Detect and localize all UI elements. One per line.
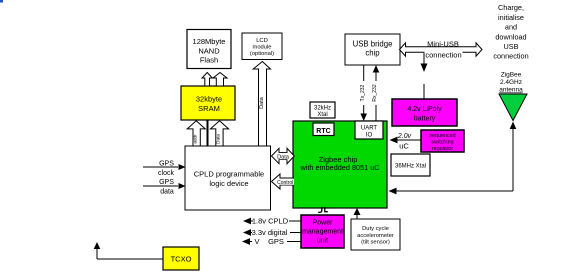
- GPS data input: [143, 179, 186, 196]
- wire accelerometer to Zigbee: [354, 208, 361, 219]
- svg-text:GPS: GPS: [159, 179, 174, 186]
- svg-text:ZigBee: ZigBee: [501, 72, 522, 79]
- svg-text:battery: battery: [414, 116, 436, 123]
- LiPoly battery: [392, 99, 457, 126]
- wire USB-UART Tx: [360, 65, 367, 121]
- svg-text:IO: IO: [366, 133, 373, 139]
- svg-text:CPLD programmable: CPLD programmable: [194, 170, 264, 179]
- svg-text:initialise: initialise: [498, 13, 524, 22]
- svg-text:Rx_232: Rx_232: [372, 84, 378, 101]
- svg-text:Xtal: Xtal: [317, 112, 327, 118]
- svg-text:data: data: [160, 189, 174, 196]
- bus arrow NAND-SRAM right: [213, 73, 227, 87]
- svg-text:regulator: regulator: [432, 146, 453, 152]
- 36MHz crystal: [391, 154, 430, 176]
- svg-text:chip: chip: [365, 49, 380, 58]
- svg-text:Power: Power: [313, 220, 334, 227]
- svg-text:2.0v: 2.0v: [397, 133, 412, 140]
- svg-text:Data: Data: [216, 134, 221, 144]
- svg-text:4.2v LiPoly: 4.2v LiPoly: [407, 106, 442, 113]
- svg-text:accelerometer: accelerometer: [357, 233, 394, 239]
- svg-text:128Mbyte: 128Mbyte: [193, 37, 226, 46]
- UART IO block: [355, 121, 383, 139]
- 32kHz crystal: [310, 102, 335, 118]
- TCXO oscillator: [163, 247, 199, 270]
- svg-text:connection: connection: [425, 51, 461, 60]
- USB bridge chip: [345, 34, 400, 65]
- svg-text:Control: Control: [277, 180, 293, 186]
- svg-text:Data: Data: [259, 96, 265, 109]
- PMU output V GPS: [242, 237, 301, 246]
- wire USB to battery: [421, 53, 428, 99]
- svg-text:Data: Data: [277, 154, 290, 160]
- PMU output 1.8v CPLD: [243, 217, 301, 226]
- svg-text:32kbyte: 32kbyte: [196, 95, 222, 104]
- svg-text:switching: switching: [431, 140, 453, 146]
- svg-text:connection: connection: [493, 52, 528, 61]
- PMU output 3.3v digital: [243, 228, 301, 237]
- corner mark: [0, 0, 3, 3]
- svg-text:sequenced: sequenced: [429, 133, 455, 139]
- svg-text:logic device: logic device: [209, 179, 248, 188]
- svg-text:Tx_232: Tx_232: [360, 84, 366, 101]
- wire Zigbee to PMU: [318, 207, 328, 212]
- svg-text:3.3v digital: 3.3v digital: [252, 228, 288, 237]
- antenna: [499, 94, 527, 121]
- svg-text:module: module: [252, 45, 271, 51]
- accelerometer tilt sensor: [351, 219, 400, 250]
- svg-text:RTC: RTC: [316, 128, 330, 135]
- svg-text:32kHz: 32kHz: [314, 106, 331, 112]
- svg-text:management: management: [302, 229, 343, 236]
- SRAM: [181, 86, 235, 120]
- svg-text:(tilt sensor): (tilt sensor): [361, 240, 390, 246]
- svg-text:UART: UART: [361, 126, 378, 132]
- svg-text:TCXO: TCXO: [171, 255, 192, 264]
- CPLD: [185, 146, 271, 210]
- svg-text:GPS: GPS: [268, 237, 284, 246]
- svg-text:Flash: Flash: [200, 56, 218, 65]
- svg-text:download: download: [495, 33, 526, 42]
- svg-text:GPS: GPS: [159, 161, 174, 168]
- bus arrow NAND-SRAM left: [202, 73, 212, 87]
- bus arrow CPLD-Zigbee data: [272, 148, 295, 163]
- wire antenna to Zigbee: [389, 122, 517, 195]
- svg-text:LCD: LCD: [256, 38, 268, 44]
- bus arrow Zigbee-CPLD control: [272, 174, 295, 189]
- wire SRAM-CPLD: [207, 120, 209, 146]
- NAND flash memory: [187, 30, 231, 69]
- svg-text:USB bridge: USB bridge: [353, 40, 393, 49]
- wire TCXO output: [94, 242, 163, 259]
- antenna label: [499, 72, 523, 94]
- svg-text:1.8v CPLD: 1.8v CPLD: [252, 217, 289, 226]
- svg-text:and: and: [505, 23, 517, 32]
- svg-text:NAND: NAND: [198, 47, 220, 56]
- svg-text:Mini-USB: Mini-USB: [427, 40, 459, 49]
- Mini-USB connector arrow: [400, 40, 483, 60]
- svg-text:USB: USB: [503, 42, 518, 51]
- svg-text:(optional): (optional): [250, 51, 274, 57]
- svg-text:V: V: [254, 237, 259, 246]
- svg-text:with embedded 8051 uC: with embedded 8051 uC: [299, 163, 379, 172]
- switching regulator: [421, 130, 464, 152]
- GPS clock input: [143, 161, 186, 178]
- regulator to uC supply: [390, 133, 422, 151]
- bus arrow SRAM-CPLD addr: [187, 121, 205, 146]
- svg-text:SRAM: SRAM: [198, 104, 220, 113]
- svg-text:2.4GHz: 2.4GHz: [500, 79, 522, 86]
- svg-text:Duty cycle: Duty cycle: [362, 226, 389, 232]
- bus arrow CPLD-LCD data: [253, 62, 270, 147]
- Zigbee chip U1: [293, 121, 387, 208]
- svg-text:36MHz Xtal: 36MHz Xtal: [395, 164, 426, 170]
- bus arrow SRAM-CPLD data: [210, 121, 228, 146]
- wire UART-USB Rx: [372, 65, 379, 121]
- svg-text:antenna: antenna: [499, 87, 523, 94]
- USB connection note: [493, 3, 528, 61]
- svg-text:uC: uC: [399, 142, 409, 151]
- power management unit: [301, 215, 344, 248]
- svg-text:unit: unit: [317, 238, 328, 245]
- svg-text:clock: clock: [158, 170, 174, 177]
- RTC block: [313, 123, 334, 136]
- svg-text:addr: addr: [193, 134, 198, 144]
- svg-text:Charge,: Charge,: [498, 3, 524, 12]
- LCD module (optional): [242, 33, 282, 60]
